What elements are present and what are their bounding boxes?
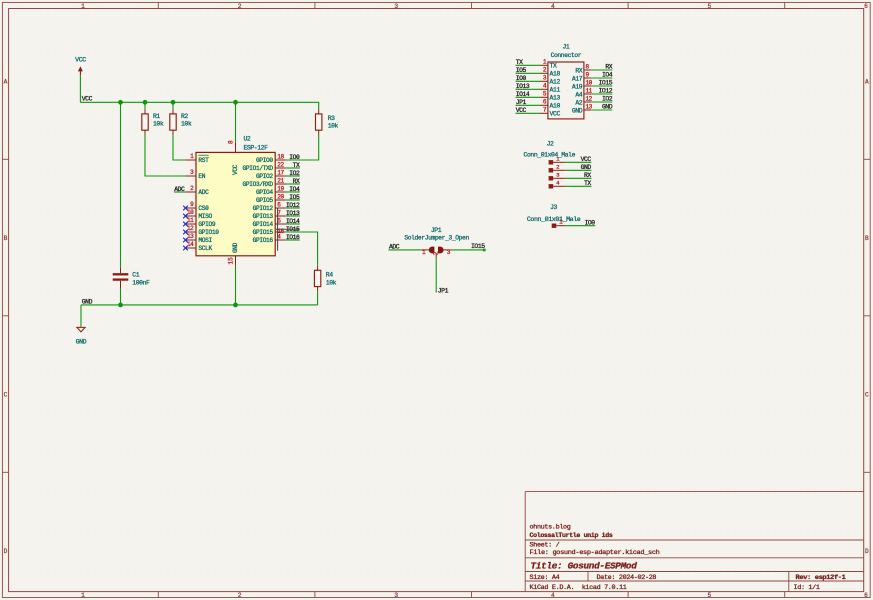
svg-text:TX: TX [293,162,300,169]
svg-text:C1: C1 [132,272,139,279]
svg-text:A4: A4 [575,91,582,98]
svg-text:1: 1 [422,249,426,256]
svg-text:VCC: VCC [82,96,93,103]
svg-text:IO14: IO14 [516,91,530,98]
svg-text:JP1: JP1 [438,287,449,294]
svg-text:U2: U2 [244,136,251,143]
svg-text:3: 3 [447,249,451,256]
svg-text:Date: 2024-02-28: Date: 2024-02-28 [597,574,657,582]
svg-text:IO14: IO14 [286,218,300,225]
svg-text:IO16: IO16 [286,234,300,241]
svg-text:1: 1 [81,3,85,10]
svg-text:IO15: IO15 [599,80,613,87]
svg-text:GPIO0: GPIO0 [256,157,273,164]
svg-text:C: C [4,391,8,398]
svg-text:J2: J2 [547,141,554,148]
svg-text:GND: GND [581,164,592,171]
svg-text:A17: A17 [572,75,583,82]
svg-text:10k: 10k [326,279,337,286]
svg-text:GND: GND [572,107,583,114]
svg-text:IO5: IO5 [289,194,300,201]
svg-text:GPIO16: GPIO16 [253,237,274,244]
svg-text:C: C [865,391,869,398]
svg-text:GPIO1/TXD: GPIO1/TXD [243,165,274,172]
svg-text:MOSI: MOSI [198,237,212,244]
svg-text:3: 3 [394,592,398,599]
svg-text:RX: RX [584,172,591,179]
svg-text:J1: J1 [562,44,569,51]
svg-text:B: B [4,235,8,242]
svg-text:IO5: IO5 [516,67,527,74]
svg-text:VCC: VCC [516,107,527,114]
svg-text:15: 15 [228,257,235,265]
svg-text:Connector: Connector [551,52,582,59]
svg-text:6: 6 [864,3,868,10]
svg-text:Conn_01x04_Male: Conn_01x04_Male [524,152,576,159]
svg-text:5: 5 [708,592,712,599]
svg-text:GPIO14: GPIO14 [253,221,274,228]
svg-text:R4: R4 [326,272,333,279]
svg-text:2: 2 [238,592,242,599]
svg-text:GPIO13: GPIO13 [253,213,274,220]
svg-text:JP1: JP1 [431,227,442,234]
svg-text:IO13: IO13 [286,210,300,217]
svg-text:ESP-12F: ESP-12F [244,145,269,152]
svg-text:Title: Gosund-ESPMod: Title: Gosund-ESPMod [531,560,638,571]
svg-text:SCLK: SCLK [198,245,212,252]
svg-text:IO2: IO2 [602,96,613,103]
svg-text:10k: 10k [153,121,164,128]
svg-text:GND: GND [82,298,93,305]
svg-text:RX: RX [575,67,582,74]
svg-text:GPIO2: GPIO2 [256,173,273,180]
svg-text:IO0: IO0 [516,75,527,82]
svg-text:A: A [865,78,869,85]
svg-text:A10: A10 [550,103,561,110]
svg-text:11: 11 [187,217,194,224]
svg-text:12: 12 [187,225,194,232]
svg-text:IO2: IO2 [289,170,300,177]
svg-text:MISO: MISO [198,213,212,220]
svg-text:IO12: IO12 [599,88,613,95]
svg-text:6: 6 [864,592,868,599]
svg-text:10: 10 [187,209,194,216]
svg-text:B: B [865,235,869,242]
svg-text:19: 19 [277,185,284,192]
svg-text:8: 8 [228,140,235,144]
svg-text:SolderJumper_3_Open: SolderJumper_3_Open [404,234,469,241]
svg-text:12: 12 [586,95,593,102]
svg-text:17: 17 [277,169,284,176]
svg-text:ADC: ADC [389,243,400,250]
svg-text:D: D [865,548,869,555]
svg-text:IO12: IO12 [286,202,300,209]
svg-text:GPIO5: GPIO5 [256,197,273,204]
svg-text:ohnuts.blog: ohnuts.blog [530,523,571,531]
svg-text:10k: 10k [181,121,192,128]
svg-text:D: D [4,548,8,555]
svg-text:Size: A4: Size: A4 [530,574,560,582]
svg-text:RX: RX [605,64,612,71]
svg-text:R3: R3 [328,115,335,122]
svg-text:13: 13 [187,233,194,240]
svg-text:RST: RST [198,157,209,164]
svg-text:GPIO12: GPIO12 [253,205,274,212]
svg-text:10k: 10k [328,123,339,130]
svg-text:GND: GND [76,339,87,346]
svg-text:VCC: VCC [75,57,86,64]
svg-text:IO0: IO0 [289,154,300,161]
svg-text:VCC: VCC [550,111,561,118]
svg-text:18: 18 [277,153,284,160]
svg-text:A12: A12 [550,79,561,86]
svg-text:VCC: VCC [232,164,239,175]
svg-text:5: 5 [708,3,712,10]
svg-text:21: 21 [277,177,284,184]
svg-text:TX: TX [584,180,591,187]
svg-text:14: 14 [187,241,194,248]
svg-text:IO0: IO0 [585,219,596,226]
svg-text:GND: GND [602,104,613,111]
svg-text:A13: A13 [550,95,561,102]
svg-text:RX: RX [293,178,300,185]
svg-text:EN: EN [198,173,205,180]
svg-text:ColossalTurtle unip ids: ColossalTurtle unip ids [530,532,613,540]
svg-text:GPIO3/RXD: GPIO3/RXD [243,181,274,188]
svg-text:J3: J3 [550,204,557,211]
svg-text:Rev: esp12f-1: Rev: esp12f-1 [796,574,846,582]
svg-text:4: 4 [551,592,555,599]
svg-text:GPIO9: GPIO9 [198,221,215,228]
svg-text:ADC: ADC [174,186,185,193]
svg-text:A18: A18 [550,71,561,78]
svg-text:A19: A19 [572,83,583,90]
svg-text:Id: 1/1: Id: 1/1 [794,584,820,592]
svg-text:IO4: IO4 [602,72,613,79]
svg-text:22: 22 [277,161,284,168]
svg-text:CS0: CS0 [198,205,209,212]
svg-text:A: A [4,78,8,85]
svg-text:VCC: VCC [581,156,592,163]
svg-text:IO4: IO4 [289,186,300,193]
svg-text:100nF: 100nF [132,280,150,287]
svg-text:File: gosund-esp-adapter.kicad: File: gosund-esp-adapter.kicad_sch [530,549,660,557]
svg-text:IO13: IO13 [516,83,530,90]
svg-text:KiCad E.D.A. kicad 7.0.11: KiCad E.D.A. kicad 7.0.11 [530,584,627,592]
svg-text:2: 2 [238,3,242,10]
svg-text:4: 4 [551,3,555,10]
svg-text:R2: R2 [181,113,188,120]
svg-text:A11: A11 [550,87,561,94]
svg-text:GND: GND [232,242,239,253]
svg-text:JP1: JP1 [516,99,527,106]
svg-text:3: 3 [394,3,398,10]
svg-text:13: 13 [586,103,593,110]
svg-text:11: 11 [586,87,593,94]
svg-text:10: 10 [586,79,593,86]
svg-text:TX: TX [516,59,523,66]
svg-text:R1: R1 [153,113,160,120]
svg-text:20: 20 [277,193,284,200]
svg-text:A2: A2 [575,99,582,106]
svg-text:2: 2 [433,251,440,255]
svg-text:TX: TX [550,63,557,70]
svg-text:ADC: ADC [198,189,209,196]
svg-text:Conn_01x01_Male: Conn_01x01_Male [527,216,581,223]
svg-text:GPIO15: GPIO15 [253,229,274,236]
svg-text:IO15: IO15 [471,243,485,250]
svg-text:GPIO10: GPIO10 [198,229,219,236]
svg-text:GPIO4: GPIO4 [256,189,273,196]
svg-text:1: 1 [81,592,85,599]
